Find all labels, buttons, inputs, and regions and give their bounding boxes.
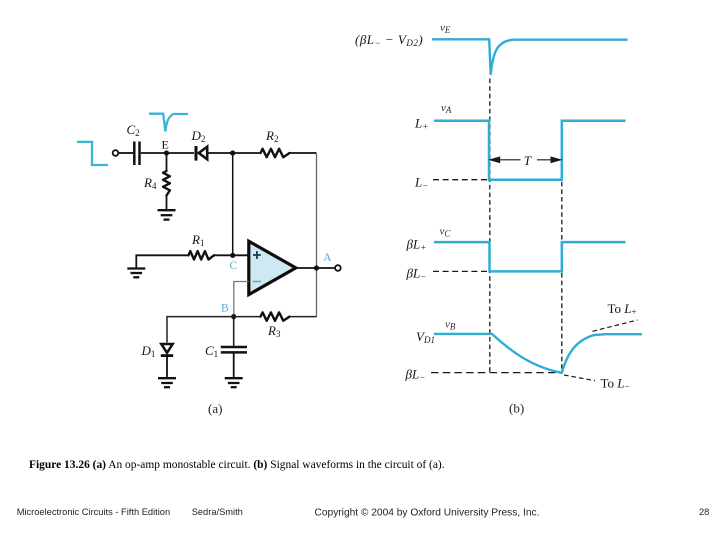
op-amp U1 <box>249 241 296 294</box>
node E <box>164 150 169 155</box>
waveform vA <box>434 121 626 180</box>
dashed level betaL- (vC) <box>433 270 488 272</box>
wire ground to R1 <box>136 255 188 268</box>
svg-text:B: B <box>221 302 229 314</box>
wire D1 to ground <box>166 357 168 378</box>
ground (R1) <box>127 269 145 278</box>
wire node B to C1 <box>233 317 235 346</box>
capacitor C1 <box>221 347 247 352</box>
wire R2 to right vertical <box>290 152 317 154</box>
wire op-amp minus input <box>234 282 249 315</box>
wire right vertical (R2 to A to R3) <box>316 154 318 317</box>
svg-text:T: T <box>524 153 532 168</box>
svg-text:28: 28 <box>699 507 709 517</box>
ground (D1) <box>158 378 176 387</box>
svg-text:A: A <box>323 252 332 264</box>
wire R3 to right vertical <box>290 316 317 318</box>
terminal A circle <box>335 265 341 271</box>
svg-text:(b): (b) <box>509 401 524 416</box>
diode D2 <box>196 146 207 161</box>
node A <box>314 265 319 270</box>
dashed pointer To L- <box>564 375 595 381</box>
svg-text:Sedra/Smith: Sedra/Smith <box>192 507 243 517</box>
node B <box>231 314 236 319</box>
input step waveform <box>77 142 108 165</box>
dashed asymptote To L+ <box>593 320 638 331</box>
ground (C1) <box>225 378 243 387</box>
resistor R4 <box>163 171 170 196</box>
dashed vertical t1 <box>561 121 563 373</box>
T interval arrows <box>490 157 560 162</box>
wire node E to R4 <box>166 153 168 171</box>
svg-text:Microelectronic Circuits - Fif: Microelectronic Circuits - Fifth Edition <box>17 507 170 517</box>
dashed level betaL- (vB) <box>431 372 560 374</box>
wire R1 to op-amp plus input <box>214 254 249 256</box>
dashed vertical t0 <box>489 79 491 373</box>
wire C2 to node E <box>141 152 194 154</box>
wire node B to R3 <box>234 316 261 318</box>
wire junction down to node C <box>232 153 234 255</box>
svg-text:Copyright © 2004 by Oxford Uni: Copyright © 2004 by Oxford University Pr… <box>315 508 540 519</box>
junction node (D2/R2) <box>230 150 235 155</box>
capacitor C2 <box>134 142 139 166</box>
waveform vC <box>434 242 626 271</box>
input terminal <box>113 150 119 156</box>
svg-text:Figure 13.26 (a) An op-amp mo: Figure 13.26 (a) An op-amp monostable ci… <box>29 459 445 471</box>
svg-text:C: C <box>230 260 238 272</box>
wire op-amp output to terminal A <box>296 267 336 269</box>
resistor R3 <box>261 312 290 320</box>
wire terminal to C2 <box>118 152 133 154</box>
diode D1 <box>161 344 173 356</box>
dashed level L- <box>433 179 488 181</box>
resistor R2 <box>261 149 290 157</box>
wire node B to D1 <box>167 317 234 343</box>
resistor R1 <box>189 251 215 259</box>
svg-text:E: E <box>162 138 169 152</box>
wire R4 to ground <box>166 196 168 210</box>
trigger spike waveform <box>149 114 188 132</box>
waveform vE <box>432 39 628 75</box>
node C <box>230 253 235 258</box>
svg-text:(a): (a) <box>208 401 222 416</box>
wire C1 to ground <box>233 352 235 377</box>
waveform vB <box>434 334 642 373</box>
ground (R4) <box>158 210 176 219</box>
wire D2 to junction <box>207 152 261 154</box>
